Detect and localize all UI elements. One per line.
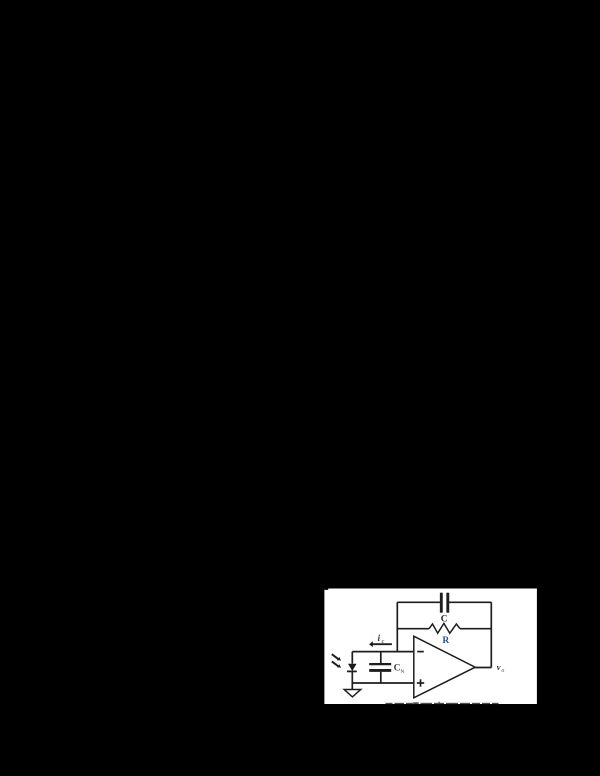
svg-text:N: N	[400, 669, 404, 675]
svg-text:c: c	[382, 639, 385, 645]
svg-text:v: v	[497, 662, 501, 672]
svg-text:o: o	[501, 668, 504, 674]
svg-text:R: R	[442, 636, 449, 646]
svg-text:C: C	[441, 614, 448, 624]
svg-text:i: i	[378, 634, 381, 644]
